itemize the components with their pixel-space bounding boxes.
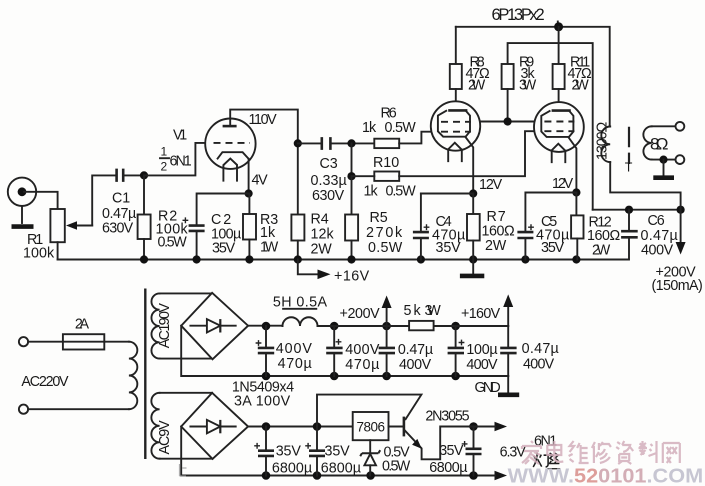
wire C3 to R6 node	[332, 142, 375, 144]
resistor R2	[138, 175, 151, 259]
wire AC top to fuse	[28, 341, 63, 343]
wire bridge1 plus output	[248, 325, 282, 327]
+16V tap arrow	[298, 260, 331, 280]
node C1/R2/grid junction	[140, 171, 148, 179]
node secondary ground junction	[659, 156, 667, 164]
V1 cathode	[218, 152, 249, 159]
svg-text:6800µ: 6800µ	[321, 461, 361, 477]
label 400V 470u (A)	[276, 341, 313, 372]
svg-text:0.47µ: 0.47µ	[522, 341, 559, 357]
capacitor 470u 400V (B)	[326, 326, 342, 376]
svg-text:35V: 35V	[212, 241, 236, 257]
+200V feed line	[593, 209, 681, 211]
label R2 100k 0.5W	[156, 209, 189, 251]
wire primary bottom to AC terminal	[28, 408, 129, 410]
transformer core	[628, 127, 630, 164]
wire grid of V1	[144, 143, 206, 176]
V1 heater filament	[224, 159, 237, 165]
AC input terminal top	[19, 337, 28, 346]
label C2 100u 35V	[211, 212, 241, 257]
node cathode V1 junction	[245, 189, 253, 197]
svg-text:35V: 35V	[541, 240, 565, 256]
wire label stub	[557, 22, 559, 27]
wire V3 cathode	[569, 138, 577, 193]
svg-text:100k: 100k	[23, 246, 55, 262]
svg-text:3W: 3W	[425, 303, 442, 319]
choke L1 5H 0.5A	[283, 317, 318, 326]
svg-text:0.47µ: 0.47µ	[398, 342, 433, 358]
label 35V 6800u (G)	[321, 444, 361, 477]
V2 screen wire to node	[480, 121, 535, 123]
svg-text:5k: 5k	[404, 303, 422, 319]
svg-text:R4: R4	[311, 212, 329, 228]
svg-text:1k: 1k	[362, 120, 377, 136]
svg-text:6P13Px2: 6P13Px2	[492, 6, 545, 24]
svg-text:1: 1	[161, 145, 168, 159]
node filter row1 top dots	[262, 322, 460, 331]
svg-text:1k: 1k	[364, 184, 379, 200]
svg-text:400V: 400V	[345, 342, 380, 358]
node C6 top junction	[625, 206, 633, 214]
watermark CJK char zi	[616, 441, 633, 464]
svg-text:0.5W: 0.5W	[368, 240, 403, 256]
svg-text:2W: 2W	[592, 243, 611, 259]
capacitor C6	[621, 210, 638, 260]
capacitor 470u 400V (A)	[256, 326, 275, 376]
label 35V 6800u (F)	[272, 444, 312, 477]
wire R6 to V2 grid	[399, 132, 431, 144]
transformer core	[144, 289, 146, 460]
svg-text:3A 100V: 3A 100V	[234, 394, 291, 410]
V2 screen grid (dashed)	[441, 121, 471, 123]
svg-text:35V: 35V	[276, 444, 302, 460]
capacitor 6800u 35V (H)	[462, 427, 482, 476]
secondary winding AC9V	[151, 393, 159, 459]
svg-text:12V: 12V	[479, 177, 503, 193]
speaker terminal bottom	[676, 155, 685, 164]
label +200V (150mA)	[652, 265, 703, 295]
node filter row1 bottom dots	[262, 372, 460, 381]
wire R10 to V3 grid	[352, 131, 535, 176]
capacitor 6800u 35V (G)	[305, 427, 325, 476]
wire bridge2 plus to 7806	[248, 426, 353, 428]
resistor R7	[467, 194, 480, 260]
wire 7806 to base	[389, 426, 404, 428]
label 0.47u 400V (E)	[522, 341, 559, 373]
svg-text:T: T	[625, 161, 633, 175]
label R11 47ohm 2W	[568, 55, 593, 94]
label R6 1k 0.5W	[362, 105, 416, 136]
node +200V corner junction	[677, 206, 685, 214]
label 5k 3W	[404, 303, 442, 319]
V3 beam plates	[541, 111, 573, 137]
svg-text:400V: 400V	[523, 357, 555, 373]
capacitor 100u 400V (D)	[448, 326, 465, 376]
potentiometer R1	[50, 209, 92, 260]
node rail dots	[140, 255, 581, 263]
V2 heater filament	[449, 143, 461, 149]
svg-text:470µ: 470µ	[345, 357, 379, 373]
svg-text:3W: 3W	[519, 78, 537, 94]
svg-text:470µ: 470µ	[278, 356, 312, 372]
svg-text:35V: 35V	[436, 240, 462, 256]
svg-text:7806: 7806	[357, 420, 386, 435]
svg-text:400V: 400V	[466, 357, 498, 373]
AC input terminal bottom	[19, 405, 28, 414]
output transformer secondary	[643, 126, 675, 159]
V3 control grid (dashed)	[544, 130, 574, 132]
+200V up arrow	[382, 296, 392, 327]
svg-text:12V: 12V	[552, 176, 574, 192]
watermark CJK char wang	[663, 443, 680, 463]
tube V2 envelope	[431, 101, 480, 150]
svg-text:2A: 2A	[75, 317, 90, 333]
svg-text:6N1: 6N1	[170, 154, 192, 170]
label C4 470u 35V	[432, 214, 465, 256]
label 0.47u 400V (C)	[398, 342, 433, 373]
wire V1 cathode lead	[248, 159, 250, 194]
label 1/2 6N1	[160, 145, 192, 174]
svg-text:0.5W: 0.5W	[382, 459, 411, 475]
resistor R5	[345, 176, 358, 259]
top plate rail	[456, 27, 610, 127]
wire V2 cathode	[465, 137, 473, 194]
+200V down arrow	[676, 210, 686, 255]
svg-text:0.5W: 0.5W	[385, 120, 417, 136]
capacitor C2 (electrolytic)	[183, 217, 205, 259]
ground (speaker)	[653, 160, 674, 178]
svg-text:AC220V: AC220V	[21, 374, 69, 390]
output arrow 6.3V top	[495, 422, 508, 432]
capacitor C1	[117, 169, 144, 182]
node top rail junction	[554, 22, 563, 31]
label 1N5409x4 3A 100V	[232, 380, 294, 410]
V3 screen grid (dashed)	[544, 121, 574, 123]
wire R9 top to +200V line	[508, 43, 593, 210]
svg-text:12k: 12k	[311, 227, 335, 243]
resistor R10	[374, 172, 399, 181]
label 5H 0.5A	[273, 295, 328, 311]
svg-text:400V: 400V	[276, 341, 313, 357]
V3 heater filament	[552, 144, 564, 150]
node row2 dots	[262, 422, 478, 480]
V2 beam plates	[438, 111, 470, 137]
svg-text:2N3055: 2N3055	[425, 409, 469, 425]
resistor R6	[374, 139, 399, 148]
capacitor C5 (electrolytic)	[517, 193, 576, 260]
label 400V 470u (B)	[345, 342, 380, 373]
label 100u 400V (D)	[466, 342, 498, 373]
resistor R9	[502, 64, 514, 122]
svg-text:110V: 110V	[249, 112, 278, 128]
wire C3 row left	[298, 142, 321, 144]
output arrow 6.3V bottom	[495, 471, 508, 481]
svg-text:2W: 2W	[572, 78, 590, 94]
secondary winding AC190V	[151, 293, 159, 358]
node V2 cathode junction	[469, 189, 477, 197]
svg-text:C6: C6	[648, 213, 665, 229]
resistor R11	[553, 27, 565, 111]
node plate/C3/R4 junction	[294, 139, 302, 147]
svg-text:0.5W: 0.5W	[158, 235, 188, 251]
label C3 0.33u 630V	[311, 156, 347, 204]
svg-text:4V: 4V	[252, 173, 269, 189]
wire sec2 to bridge2	[160, 393, 213, 459]
label R8 47ohm 2W	[466, 55, 491, 94]
svg-text:GND: GND	[475, 380, 501, 396]
transistor Q1 2N3055	[404, 417, 481, 460]
output transformer T primary	[601, 127, 680, 210]
svg-text:2W: 2W	[485, 238, 507, 254]
capacitor 6800u 35V (F)	[254, 427, 274, 476]
svg-text:+200V: +200V	[340, 306, 381, 322]
wire choke to +200V node	[318, 325, 509, 327]
svg-text:C1: C1	[112, 191, 130, 207]
V1 grid (dashed)	[214, 142, 251, 144]
watermark CJK char dian	[547, 441, 563, 462]
speaker terminal top	[676, 122, 685, 131]
svg-text:C3: C3	[320, 156, 338, 172]
svg-text:8Ω: 8Ω	[650, 135, 669, 154]
wire bridge1 minus to gnd rail	[181, 326, 508, 376]
wire C3 node down to R10	[351, 143, 353, 176]
svg-text:6800µ: 6800µ	[272, 461, 312, 477]
svg-text:2W: 2W	[311, 242, 333, 258]
svg-text:+16V: +16V	[334, 269, 370, 285]
capacitor 0.47u 400V (E)	[500, 326, 516, 376]
+160V up arrow	[503, 294, 513, 326]
svg-text:AC190V: AC190V	[157, 303, 173, 349]
diode D1 0.5V 0.5W (zener)	[360, 440, 380, 475]
fuse F1 2A	[63, 334, 104, 349]
V1 plate	[223, 125, 237, 128]
watermark CJK char jia	[522, 441, 541, 464]
label filament (CJK dengsi)	[533, 453, 559, 468]
V1 heater leads	[223, 166, 237, 181]
scan noise marks bottom left	[180, 464, 187, 476]
main bottom rail (ground bus)	[58, 259, 629, 261]
watermark CJK char wei	[569, 441, 589, 463]
svg-text:2W: 2W	[468, 78, 486, 94]
svg-text:V1: V1	[173, 128, 187, 144]
wire R1 wiper to C1	[92, 175, 115, 225]
input jack J1	[8, 178, 36, 223]
svg-text:400V: 400V	[641, 243, 674, 259]
regulator 7806	[353, 412, 389, 440]
wire sec1 to bridge1	[160, 293, 213, 358]
resistor R12	[571, 193, 583, 260]
ground (input jack)	[12, 224, 34, 229]
label C5 470u 35V	[536, 214, 569, 256]
svg-text:2: 2	[161, 160, 168, 174]
wire arrow tails	[481, 427, 496, 476]
svg-text:35V: 35V	[439, 443, 464, 459]
svg-text:1W: 1W	[260, 240, 279, 256]
wire bridge2 minus to bottom rail	[181, 427, 495, 476]
V2 heater leads	[448, 150, 462, 161]
svg-text:R5: R5	[370, 210, 388, 226]
svg-text:6800µ: 6800µ	[429, 460, 467, 476]
node V3 cathode junction	[572, 188, 580, 196]
wire C4 to cathode node	[421, 193, 473, 195]
bridge rectifier B2	[181, 393, 248, 459]
label filament underline	[547, 468, 560, 470]
resistor 5k 3W	[409, 321, 434, 330]
svg-text:100µ: 100µ	[466, 342, 497, 358]
svg-text:AC9V: AC9V	[157, 420, 173, 455]
svg-text:630V: 630V	[312, 188, 345, 204]
label R1 100k	[23, 232, 55, 262]
ground (main rail)	[460, 260, 484, 276]
svg-text:(150mA): (150mA)	[652, 278, 703, 294]
node R10/R5 junction	[347, 172, 355, 180]
capacitor C3	[322, 137, 331, 150]
svg-text:0.5W: 0.5W	[386, 184, 417, 200]
label 35V 6800u (H)	[429, 443, 467, 476]
label R7 160ohm 2W	[482, 209, 516, 254]
label R9 3k 3W	[519, 55, 537, 94]
label C1 0.47u 630V	[102, 191, 136, 237]
bridge rectifier B1	[181, 293, 248, 360]
node C3/R6/R10 junction	[347, 139, 355, 147]
wire jack to R1 top	[24, 192, 58, 209]
svg-text:1300Ω: 1300Ω	[595, 122, 611, 161]
label C6 0.47u 400V	[641, 213, 678, 259]
svg-text:400V: 400V	[399, 357, 432, 373]
svg-text:+160V: +160V	[461, 306, 501, 322]
watermark CJK char liao	[639, 441, 657, 463]
V2 control grid (dashed)	[441, 131, 471, 133]
svg-text:630V: 630V	[102, 221, 134, 237]
label R3 1k 1W	[260, 212, 279, 256]
resistor R3	[243, 194, 256, 260]
resistor R4	[291, 215, 304, 260]
node screen junction	[504, 117, 512, 125]
capacitor 0.47u 400V (C)	[379, 326, 395, 376]
svg-text:0.33µ: 0.33µ	[311, 173, 347, 189]
tube V1 triode envelope	[205, 119, 255, 169]
wire collector loop	[317, 395, 421, 427]
wire V1 plate to top node	[230, 110, 298, 215]
svg-text:R10: R10	[373, 155, 399, 171]
resistor R8	[450, 27, 462, 111]
V3 heater leads	[552, 151, 566, 162]
power transformer primary winding	[129, 342, 137, 409]
label R12 160ohm 2W	[587, 215, 621, 259]
label R4 12k 2W	[311, 212, 335, 258]
V3 plate	[552, 109, 571, 112]
label 0.5V 0.5W	[382, 445, 411, 475]
tube V3 envelope	[534, 102, 584, 152]
capacitor C4 (electrolytic)	[413, 194, 430, 260]
svg-text:35V: 35V	[325, 444, 351, 460]
svg-text:WWW.520101.COM: WWW.520101.COM	[508, 465, 704, 486]
wire fuse to primary	[104, 341, 129, 343]
watermark CJK char xiu	[592, 442, 611, 463]
svg-text:270k: 270k	[366, 225, 403, 241]
wire cathode to C2	[197, 194, 249, 225]
label R10 1k 0.5W	[364, 155, 417, 200]
V2 plate	[448, 109, 467, 112]
ground (psu rail)	[498, 376, 519, 395]
label R5 270k 0.5W	[366, 210, 403, 256]
